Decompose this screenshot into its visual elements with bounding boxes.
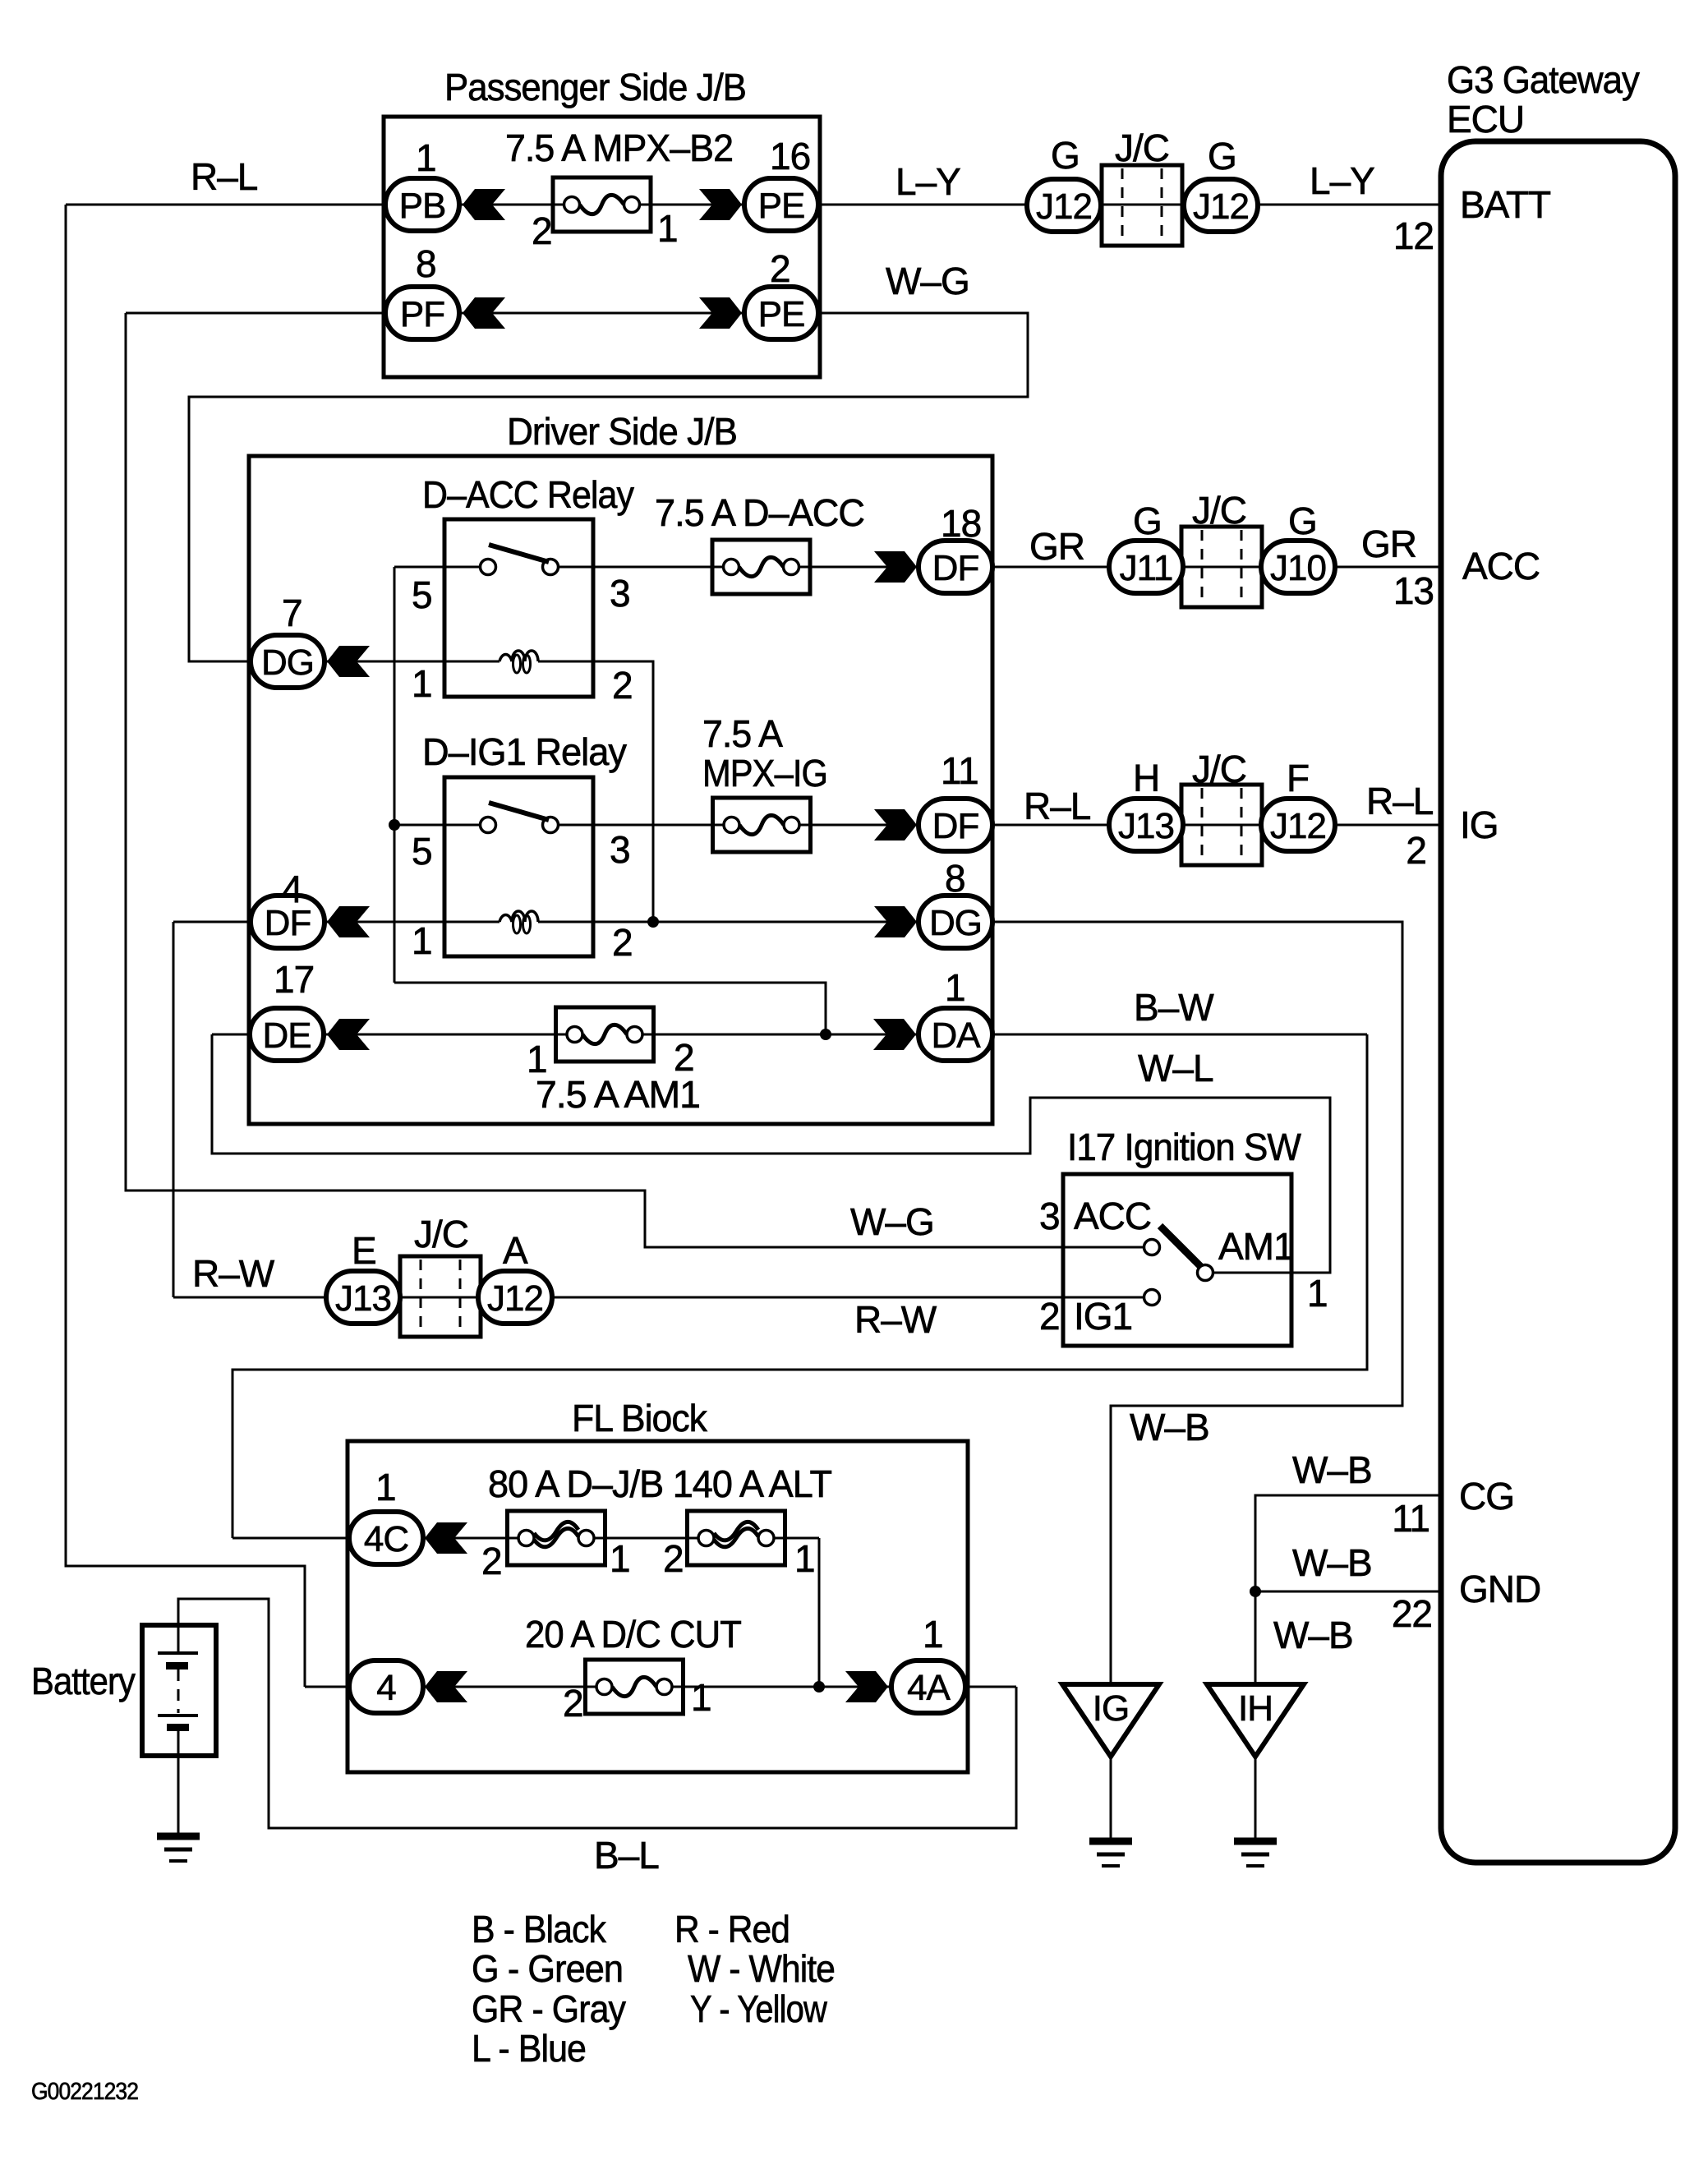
- svg-text:B–W: B–W: [1134, 986, 1214, 1029]
- svg-text:W–B: W–B: [1292, 1541, 1372, 1584]
- svg-text:11: 11: [941, 749, 978, 792]
- svg-text:G: G: [1133, 500, 1162, 542]
- svg-text:R–L: R–L: [1024, 785, 1091, 827]
- svg-text:W–L: W–L: [1138, 1047, 1213, 1089]
- svg-text:H: H: [1133, 757, 1159, 799]
- svg-text:3: 3: [1039, 1195, 1060, 1237]
- svg-text:IG: IG: [1093, 1688, 1129, 1729]
- svg-text:4: 4: [376, 1668, 396, 1708]
- svg-text:2: 2: [663, 1537, 684, 1580]
- svg-text:80 A D–J/B 140 A ALT: 80 A D–J/B 140 A ALT: [488, 1462, 832, 1505]
- svg-text:L - Blue: L - Blue: [472, 2027, 586, 2070]
- svg-text:J/C: J/C: [414, 1213, 468, 1255]
- svg-text:4C: 4C: [364, 1519, 408, 1559]
- svg-text:R–L: R–L: [191, 155, 258, 198]
- svg-text:J13: J13: [1118, 806, 1174, 846]
- svg-text:22: 22: [1392, 1592, 1432, 1635]
- svg-text:ECU: ECU: [1447, 98, 1524, 140]
- svg-text:A: A: [503, 1229, 528, 1272]
- svg-text:2: 2: [674, 1036, 694, 1079]
- svg-text:13: 13: [1393, 569, 1434, 612]
- svg-text:1: 1: [527, 1038, 547, 1080]
- svg-text:GR: GR: [1029, 525, 1084, 568]
- svg-text:L–Y: L–Y: [1310, 159, 1374, 202]
- svg-text:3: 3: [610, 828, 630, 871]
- svg-text:GR: GR: [1361, 523, 1416, 565]
- svg-text:GR - Gray: GR - Gray: [472, 1987, 626, 2030]
- svg-text:DG: DG: [929, 903, 982, 943]
- svg-text:L–Y: L–Y: [895, 160, 960, 203]
- svg-text:G: G: [1208, 135, 1236, 177]
- svg-text:1: 1: [945, 966, 965, 1009]
- svg-text:D–ACC Relay: D–ACC Relay: [422, 473, 634, 516]
- svg-text:7: 7: [282, 592, 302, 634]
- svg-text:J/C: J/C: [1115, 127, 1169, 169]
- svg-text:IG: IG: [1460, 804, 1499, 846]
- svg-text:3: 3: [610, 572, 630, 615]
- svg-text:2: 2: [1406, 829, 1426, 872]
- svg-text:E: E: [352, 1229, 376, 1272]
- svg-text:7.5 A: 7.5 A: [702, 712, 783, 755]
- svg-text:2: 2: [770, 247, 790, 290]
- svg-text:Passenger Side J/B: Passenger Side J/B: [444, 66, 746, 108]
- svg-text:1: 1: [794, 1537, 815, 1580]
- svg-text:J12: J12: [1193, 187, 1249, 227]
- svg-text:Y - Yellow: Y - Yellow: [690, 1987, 828, 2030]
- svg-text:GND: GND: [1459, 1568, 1540, 1610]
- svg-text:W–B: W–B: [1130, 1406, 1209, 1448]
- svg-text:PE: PE: [758, 294, 805, 334]
- svg-text:PE: PE: [758, 186, 805, 226]
- svg-text:7.5 A AM1: 7.5 A AM1: [536, 1073, 700, 1116]
- svg-text:1: 1: [1307, 1272, 1328, 1315]
- svg-text:FL Biock: FL Biock: [572, 1397, 708, 1439]
- svg-text:G00221232: G00221232: [31, 2079, 138, 2105]
- svg-text:W–G: W–G: [850, 1200, 934, 1243]
- svg-text:7.5 A D–ACC: 7.5 A D–ACC: [655, 491, 864, 534]
- svg-text:F: F: [1287, 757, 1309, 799]
- svg-text:8: 8: [945, 857, 965, 900]
- svg-text:R–L: R–L: [1366, 780, 1434, 822]
- svg-text:B - Black: B - Black: [472, 1908, 607, 1950]
- svg-text:DA: DA: [931, 1016, 981, 1056]
- svg-text:1: 1: [412, 919, 432, 962]
- svg-text:2: 2: [563, 1682, 583, 1725]
- svg-text:1: 1: [412, 662, 432, 705]
- svg-text:Driver Side J/B: Driver Side J/B: [507, 410, 737, 453]
- svg-text:J12: J12: [1036, 187, 1092, 227]
- svg-text:2: 2: [481, 1540, 502, 1582]
- svg-text:7.5 A MPX–B2: 7.5 A MPX–B2: [505, 127, 733, 169]
- svg-text:J12: J12: [487, 1278, 543, 1319]
- svg-text:DE: DE: [262, 1016, 311, 1056]
- svg-text:J12: J12: [1270, 806, 1326, 846]
- svg-text:17: 17: [274, 958, 314, 1001]
- svg-text:4: 4: [282, 868, 302, 910]
- svg-text:J10: J10: [1270, 548, 1326, 588]
- svg-text:MPX–IG: MPX–IG: [702, 752, 827, 794]
- svg-text:DF: DF: [932, 548, 979, 588]
- svg-text:G: G: [1288, 500, 1317, 542]
- svg-text:1: 1: [375, 1466, 396, 1508]
- svg-text:W–G: W–G: [886, 260, 969, 302]
- svg-text:1: 1: [610, 1537, 630, 1580]
- svg-text:I17 Ignition SW: I17 Ignition SW: [1067, 1126, 1302, 1168]
- svg-text:2: 2: [612, 664, 633, 707]
- svg-text:R–W: R–W: [192, 1252, 275, 1295]
- svg-text:W–B: W–B: [1292, 1448, 1372, 1491]
- svg-text:1: 1: [923, 1613, 943, 1656]
- svg-text:8: 8: [416, 242, 436, 285]
- svg-text:J/C: J/C: [1192, 748, 1246, 790]
- svg-text:W - White: W - White: [688, 1947, 835, 1990]
- svg-text:G3 Gateway: G3 Gateway: [1447, 58, 1640, 101]
- svg-text:5: 5: [412, 830, 432, 873]
- svg-text:J13: J13: [335, 1278, 391, 1319]
- svg-text:AM1: AM1: [1218, 1225, 1294, 1268]
- svg-text:G: G: [1051, 134, 1080, 177]
- svg-text:12: 12: [1393, 214, 1434, 257]
- svg-text:ACC: ACC: [1074, 1195, 1151, 1237]
- svg-text:D–IG1 Relay: D–IG1 Relay: [422, 730, 627, 773]
- svg-text:16: 16: [770, 135, 810, 177]
- svg-text:J11: J11: [1120, 548, 1173, 588]
- svg-text:IH: IH: [1238, 1688, 1273, 1729]
- svg-text:PF: PF: [400, 294, 444, 334]
- svg-text:R - Red: R - Red: [674, 1908, 790, 1950]
- svg-text:1: 1: [691, 1676, 711, 1719]
- svg-text:DF: DF: [932, 806, 979, 846]
- svg-text:CG: CG: [1459, 1475, 1514, 1518]
- svg-text:PB: PB: [399, 186, 446, 226]
- svg-text:2: 2: [612, 921, 633, 964]
- svg-text:ACC: ACC: [1462, 545, 1540, 587]
- svg-text:W–B: W–B: [1273, 1614, 1353, 1656]
- svg-text:B–L: B–L: [594, 1834, 659, 1877]
- svg-text:20 A D/C CUT: 20 A D/C CUT: [525, 1613, 742, 1656]
- svg-text:J/C: J/C: [1192, 489, 1246, 532]
- svg-text:DG: DG: [261, 642, 314, 683]
- svg-text:1: 1: [657, 207, 678, 250]
- svg-text:18: 18: [941, 502, 981, 545]
- svg-text:2: 2: [532, 210, 552, 252]
- svg-text:2: 2: [1039, 1295, 1060, 1338]
- svg-text:BATT: BATT: [1460, 183, 1551, 226]
- svg-text:11: 11: [1392, 1497, 1429, 1540]
- svg-text:G - Green: G - Green: [472, 1947, 623, 1990]
- svg-text:1: 1: [416, 136, 436, 179]
- svg-text:5: 5: [412, 573, 432, 616]
- svg-text:IG1: IG1: [1074, 1295, 1132, 1338]
- svg-text:R–W: R–W: [854, 1298, 937, 1341]
- svg-text:4A: 4A: [907, 1668, 951, 1708]
- svg-text:Battery: Battery: [31, 1660, 136, 1702]
